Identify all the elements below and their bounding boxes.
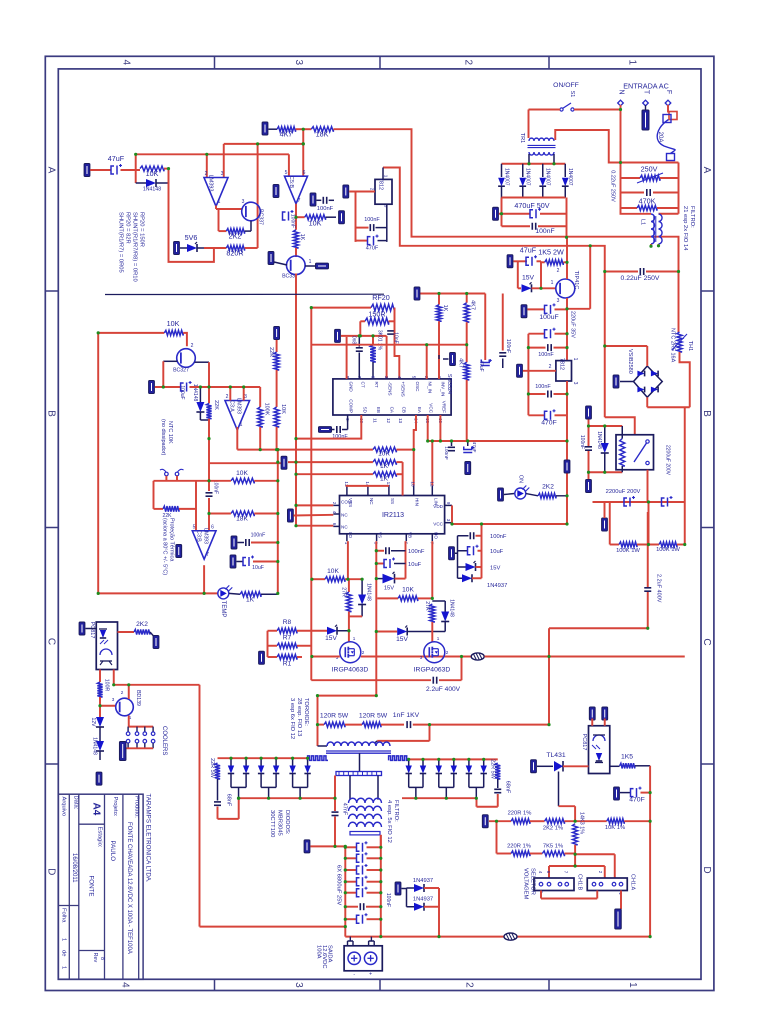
svg-text:18K: 18K <box>316 130 329 139</box>
wire ntc <box>165 476 167 481</box>
op-amp LM393 C5:B <box>285 176 308 204</box>
wire <box>565 853 576 855</box>
svg-text:470F: 470F <box>366 246 379 252</box>
svg-text:100nF: 100nF <box>535 384 551 390</box>
wire <box>154 508 164 510</box>
wire <box>209 480 231 482</box>
svg-text:12V: 12V <box>90 718 96 728</box>
svg-text:DIODOS:: DIODOS: <box>284 810 290 835</box>
svg-text:100K 1W: 100K 1W <box>656 547 680 553</box>
svg-text:B: B <box>701 410 712 417</box>
wire <box>261 593 278 595</box>
svg-text:470F: 470F <box>629 797 645 804</box>
wire <box>485 656 685 658</box>
resistor 220R 1% a <box>511 819 530 824</box>
net label ref <box>339 211 345 224</box>
svg-text:MBR3045: MBR3045 <box>277 810 283 836</box>
svg-text:2: 2 <box>463 60 474 66</box>
capacitor 2.2uF 400V low <box>311 679 431 681</box>
capacitor 100nF comp <box>319 427 332 433</box>
op-amp LM393 C3:A <box>225 401 250 431</box>
svg-text:+: + <box>369 972 372 978</box>
svg-text:1K5: 1K5 <box>621 754 633 761</box>
wire <box>99 670 101 683</box>
wire <box>563 765 589 767</box>
net label 22K top <box>274 327 280 340</box>
capacitor 0.22uF 250V second <box>605 271 638 273</box>
wire com <box>296 504 333 506</box>
bridge diode rail top <box>502 163 566 165</box>
svg-text:R7: R7 <box>283 635 292 642</box>
wire <box>276 370 278 407</box>
wire right bus <box>684 407 686 544</box>
capacitor 100nF <box>310 193 316 206</box>
wire vref col <box>484 294 486 361</box>
transformer toroid primary <box>327 742 390 746</box>
bridge rail bottom <box>502 197 566 199</box>
net label tl431 <box>531 760 537 773</box>
svg-text:Folha: Folha <box>61 908 67 923</box>
capacitor 100uF <box>273 185 279 198</box>
wire <box>497 853 512 855</box>
svg-text:47uF: 47uF <box>108 154 125 163</box>
wire <box>218 209 220 231</box>
svg-text:6: 6 <box>371 376 376 379</box>
wire <box>200 419 209 421</box>
svg-text:100K 1W: 100K 1W <box>616 548 640 554</box>
svg-text:TL431: TL431 <box>546 752 565 759</box>
svg-text:PC817: PC817 <box>89 622 95 639</box>
capacitor 0n8 <box>358 336 360 347</box>
wire out C3B <box>203 565 205 593</box>
svg-text:3: 3 <box>242 199 245 205</box>
zener 12V <box>96 717 104 727</box>
svg-text:100nF: 100nF <box>213 480 219 494</box>
svg-text:820R: 820R <box>226 249 243 258</box>
wire <box>566 198 568 238</box>
diode 1N4148 relay <box>604 426 606 443</box>
svg-text:VOLTAGEM: VOLTAGEM <box>523 868 529 900</box>
wire <box>295 204 297 230</box>
svg-text:A: A <box>45 167 56 174</box>
wire <box>269 128 278 130</box>
svg-text:8: 8 <box>99 957 105 960</box>
svg-text:7: 7 <box>206 552 209 558</box>
svg-text:1N4007: 1N4007 <box>525 168 531 186</box>
svg-text:Arquivo: Arquivo <box>61 797 67 817</box>
wire <box>209 513 231 515</box>
svg-text:1: 1 <box>240 422 243 428</box>
svg-text:(aciona a 80°C +/- 5°C): (aciona a 80°C +/- 5°C) <box>162 518 168 575</box>
zener 15V <box>522 284 532 292</box>
svg-text:4: 4 <box>332 511 337 514</box>
resistor 14K3 1% <box>573 824 578 845</box>
IC SG3524 <box>333 379 451 415</box>
svg-text:1N4007: 1N4007 <box>504 168 510 186</box>
wire <box>128 685 130 699</box>
svg-text:470K: 470K <box>639 197 656 206</box>
capacitor 47uF pre <box>526 257 529 265</box>
svg-text:6: 6 <box>303 170 306 176</box>
resistor 2K2 <box>219 230 227 232</box>
svg-text:1: 1 <box>551 280 554 286</box>
toroid stem <box>359 753 361 771</box>
capacitor 47uF aux <box>467 441 469 446</box>
wire base <box>100 705 116 707</box>
svg-text:100nF: 100nF <box>385 893 391 907</box>
capacitor 100nF aux <box>451 441 453 446</box>
net label aux2b <box>564 460 570 473</box>
wire <box>647 470 649 502</box>
wire <box>588 420 590 447</box>
svg-text:VDD: VDD <box>433 504 443 509</box>
wire <box>259 387 261 407</box>
wire <box>206 154 208 177</box>
wire VB col <box>405 541 407 578</box>
svg-text:NI_IN: NI_IN <box>428 382 433 394</box>
wire 47nF drop <box>334 776 336 812</box>
resistor 120R 5W b <box>362 722 381 727</box>
svg-text:LM393: LM393 <box>203 528 209 544</box>
capacitor 2.2uF 400V right <box>647 592 649 628</box>
capacitor 100uF prot <box>181 383 184 391</box>
wire SD <box>296 415 361 439</box>
wire <box>349 191 375 193</box>
wire RF20 bus <box>311 307 371 309</box>
LED ON <box>498 488 504 501</box>
resistor 10K feedback <box>296 216 305 218</box>
wire GND pin <box>346 337 348 379</box>
svg-text:100nF: 100nF <box>251 533 266 539</box>
wire <box>530 820 545 822</box>
resistor 4K7 vert b <box>464 362 469 380</box>
svg-text:1: 1 <box>384 175 389 178</box>
svg-text:1: 1 <box>61 938 67 941</box>
IC IR2113 <box>340 496 445 534</box>
svg-text:C3:A: C3:A <box>229 400 235 412</box>
svg-text:1K: 1K <box>442 305 448 312</box>
svg-text:220uF 35V: 220uF 35V <box>570 311 576 338</box>
net label Ven.out <box>304 840 310 853</box>
svg-text:SD: SD <box>362 407 367 414</box>
wire <box>215 206 217 210</box>
capacitor 6800uF 1 <box>345 846 357 848</box>
cap bank rails <box>344 846 346 936</box>
resistor 120R 5W a <box>324 722 345 727</box>
svg-text:3: 3 <box>384 205 389 208</box>
svg-text:PAULO: PAULO <box>109 841 116 862</box>
zener 15V boot <box>376 578 382 580</box>
svg-text:ON: ON <box>518 475 524 483</box>
svg-text:10K: 10K <box>378 451 390 458</box>
net label 4K7 feed <box>262 122 268 135</box>
svg-text:2: 2 <box>362 650 365 655</box>
wire <box>413 724 549 726</box>
svg-text:TR1: TR1 <box>519 133 525 143</box>
wire row2 <box>288 461 373 463</box>
capacitor 470F <box>528 414 545 416</box>
capacitor 47uF <box>111 166 114 174</box>
svg-text:A4: A4 <box>91 803 102 816</box>
wire LIN <box>431 441 433 486</box>
svg-text:22R 5W: 22R 5W <box>490 759 496 780</box>
capacitor 470F 7812 <box>356 240 369 242</box>
wire rail <box>355 192 357 242</box>
svg-text:100uF: 100uF <box>539 314 558 321</box>
svg-text:18K: 18K <box>236 516 248 523</box>
diode 1N4148 <box>136 182 146 184</box>
net label prot <box>176 545 182 558</box>
svg-text:100nF: 100nF <box>535 228 554 235</box>
wire <box>565 820 607 822</box>
net label TEMP drive <box>305 265 316 267</box>
svg-text:3: 3 <box>446 519 451 522</box>
capacitor 1nF 1KV <box>406 721 408 728</box>
wire snubber right <box>549 627 648 629</box>
wire vdd <box>451 505 453 524</box>
svg-text:47uF: 47uF <box>471 442 477 453</box>
diode pair joins left <box>231 786 246 788</box>
svg-text:3K01 1%: 3K01 1% <box>377 330 383 351</box>
svg-text:120R 5W: 120R 5W <box>359 713 388 720</box>
svg-text:VB: VB <box>407 532 412 538</box>
svg-text:15V: 15V <box>396 636 408 643</box>
wire tl431 bottom <box>558 772 560 807</box>
svg-text:FONTE CHAVEADA 12.6VDC X 100A: FONTE CHAVEADA 12.6VDC X 100A - TEF100A <box>126 822 132 954</box>
wire <box>113 670 115 685</box>
svg-text:1N4148: 1N4148 <box>366 583 372 601</box>
svg-text:16/08/2011: 16/08/2011 <box>71 853 77 883</box>
svg-text:RT: RT <box>374 382 379 388</box>
wire pin14 to HIN <box>414 415 416 486</box>
wire <box>514 260 528 262</box>
resistor 10K lo <box>311 578 325 580</box>
wire <box>276 340 278 352</box>
svg-text:2: 2 <box>557 268 560 274</box>
winding aux left <box>308 756 328 761</box>
capacitor 68nF right <box>497 779 499 788</box>
capacitor 100nF b <box>528 393 545 395</box>
svg-text:N: N <box>618 89 625 94</box>
svg-text:100nF: 100nF <box>443 446 449 460</box>
resistor 150R <box>365 318 389 325</box>
resistor 3K01 1% <box>372 336 374 345</box>
svg-text:COM: COM <box>341 500 352 505</box>
svg-text:3: 3 <box>112 697 115 702</box>
capacitor 6800uF 6 <box>345 918 357 920</box>
capacitor 100nF <box>502 225 531 227</box>
connector CH1:B <box>534 878 574 891</box>
capacitor 10uF boot <box>376 563 384 565</box>
resistor 7K5 1% <box>542 851 564 856</box>
wire emitter <box>195 361 210 363</box>
resistor 22K prot <box>206 403 211 418</box>
regulator 7812 first <box>375 179 392 204</box>
wire vss rail <box>346 485 389 487</box>
ferrite bead <box>471 653 484 660</box>
wire <box>295 248 297 257</box>
capacitor 2200uF 200V b <box>662 498 665 506</box>
wire <box>169 169 214 262</box>
fuse 20A <box>669 112 677 120</box>
svg-text:1: 1 <box>309 259 312 265</box>
svg-text:IRGP4063D: IRGP4063D <box>332 667 369 674</box>
svg-text:NC: NC <box>369 498 374 505</box>
svg-text:TOROIDE:: TOROIDE: <box>303 698 309 726</box>
capacitor 100nF vref <box>502 294 504 351</box>
wire comp <box>347 415 349 422</box>
svg-text:10K: 10K <box>327 568 339 575</box>
wire <box>589 425 623 427</box>
wire descend <box>277 450 279 594</box>
svg-text:SG3524: SG3524 <box>446 374 452 394</box>
svg-text:15V: 15V <box>490 566 500 572</box>
wire <box>555 130 620 163</box>
svg-text:1: 1 <box>61 966 67 969</box>
svg-text:100nF: 100nF <box>408 549 425 555</box>
svg-text:2200uF 200V: 2200uF 200V <box>665 445 671 476</box>
svg-text:VCC: VCC <box>433 522 443 527</box>
svg-text:2.2uF 400V: 2.2uF 400V <box>656 574 662 603</box>
capacitor 100nF a <box>528 347 545 349</box>
svg-text:COMP: COMP <box>349 399 354 413</box>
wire <box>609 503 611 545</box>
resistor 18K <box>311 127 333 132</box>
svg-text:1: 1 <box>353 636 356 641</box>
svg-text:BD139: BD139 <box>135 690 141 706</box>
svg-text:1: 1 <box>627 60 638 66</box>
diode 1N4148 cooler <box>96 741 104 751</box>
svg-text:2K2: 2K2 <box>542 484 554 491</box>
svg-text:VCC: VCC <box>429 403 434 413</box>
svg-text:C5:B: C5:B <box>288 176 294 189</box>
resistor 1K temp <box>240 592 261 597</box>
wire <box>150 632 154 636</box>
svg-text:Proteção Térmica: Proteção Térmica <box>169 518 175 562</box>
wire bank bottom <box>345 936 381 938</box>
wire bus from Q2 <box>295 274 297 526</box>
svg-text:HO: HO <box>433 532 438 539</box>
net label +12V <box>281 456 287 469</box>
wire <box>229 592 240 595</box>
resistor 2K2 1% <box>545 819 565 824</box>
svg-text:22K: 22K <box>213 400 219 410</box>
capacitor 100nF ntc <box>206 492 213 494</box>
capacitor 0.22uF <box>621 192 645 194</box>
svg-text:100nF: 100nF <box>317 206 334 212</box>
winding aux right <box>389 756 409 761</box>
resistor 10K <box>140 166 164 171</box>
svg-text:TEMP: TEMP <box>220 601 226 618</box>
wire NI rail <box>311 344 466 346</box>
svg-text:100A: 100A <box>316 945 322 959</box>
wire <box>680 352 690 407</box>
wire <box>386 204 388 242</box>
svg-text:12: 12 <box>429 481 434 487</box>
transistor BD139 <box>116 698 134 716</box>
capacitor 100nF vcc <box>458 535 469 537</box>
wire bus 12V vertical <box>310 308 312 681</box>
net label 470F <box>614 787 620 800</box>
rectifier bus left <box>239 797 335 799</box>
svg-text:CH1:A: CH1:A <box>630 874 636 891</box>
svg-text:CB: CB <box>401 407 406 413</box>
wire VS col <box>375 541 377 695</box>
wire VCC15 <box>427 415 429 441</box>
wire sel b <box>549 865 605 867</box>
transistor BC337 Q2 <box>287 256 306 275</box>
NTC 10K <box>165 472 169 476</box>
wire <box>620 891 622 910</box>
svg-text:7812: 7812 <box>378 178 384 190</box>
svg-text:NTC 10K: NTC 10K <box>167 421 173 444</box>
svg-text:1N4148: 1N4148 <box>92 737 98 755</box>
svg-text:21 esp 2x FIO 14: 21 esp 2x FIO 14 <box>682 206 688 251</box>
op-amp LM393 C3:B <box>192 531 216 559</box>
svg-text:C3:B: C3:B <box>196 530 202 542</box>
svg-text:5: 5 <box>193 525 196 531</box>
svg-text:4K7: 4K7 <box>470 300 476 310</box>
inductor FILTRO output <box>349 798 382 803</box>
svg-text:3: 3 <box>557 298 560 304</box>
zone ticks top <box>214 56 216 69</box>
svg-text:IR2113: IR2113 <box>382 512 404 519</box>
capacitor 100nF boot <box>376 550 384 552</box>
wire <box>431 622 433 642</box>
svg-text:ON/OFF: ON/OFF <box>553 82 579 89</box>
wire nc6 <box>296 525 333 527</box>
net label mid <box>288 509 294 522</box>
svg-text:10K: 10K <box>309 219 322 228</box>
svg-text:3 esp 6x FIO 12: 3 esp 6x FIO 12 <box>289 698 295 739</box>
svg-text:22K: 22K <box>268 347 274 357</box>
resistor 10K vert <box>274 407 279 427</box>
net label AUX2 <box>586 480 592 493</box>
IGBT IRGP4063D high <box>424 642 445 663</box>
capacitor 6800uF 2 <box>345 857 357 859</box>
wire secondary left lead <box>349 776 351 800</box>
zener 15V vcc <box>458 566 466 568</box>
resistor 10K mid <box>231 478 254 483</box>
wire <box>566 381 568 524</box>
wire <box>620 105 622 163</box>
svg-text:1K5 2W: 1K5 2W <box>538 248 564 257</box>
ferrite bead out <box>504 933 517 940</box>
wire <box>528 154 530 164</box>
svg-text:13: 13 <box>398 418 403 424</box>
wire <box>333 129 678 271</box>
svg-text:1K: 1K <box>299 234 305 241</box>
svg-text:5: 5 <box>285 170 288 176</box>
net label 47uF <box>507 255 513 268</box>
wire <box>646 397 648 407</box>
wire <box>296 128 312 130</box>
svg-text:1N4007: 1N4007 <box>545 168 551 186</box>
wire long 18K to filter <box>383 168 605 347</box>
capacitor 10nF <box>386 336 388 379</box>
wire cap rail <box>527 334 529 416</box>
wire <box>481 524 483 578</box>
svg-text:47uF: 47uF <box>520 246 537 255</box>
svg-text:250V: 250V <box>641 165 658 174</box>
wire primary feed <box>318 695 377 697</box>
svg-text:0.22uF 250V: 0.22uF 250V <box>621 275 660 282</box>
net label 12Vb <box>414 287 420 300</box>
wire row3 <box>296 473 373 475</box>
resistor 10K 1% <box>607 819 625 824</box>
net label 7812 in2 <box>343 185 349 198</box>
wire <box>635 765 650 767</box>
